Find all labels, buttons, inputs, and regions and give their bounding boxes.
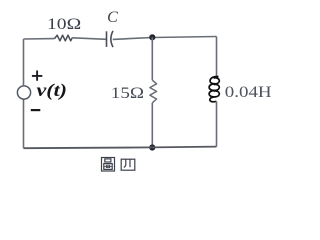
node B junction dot bottom (149, 144, 155, 150)
wire top-left horizontal (24, 38, 55, 40)
capacitor C left plate (106, 31, 108, 47)
node A junction dot top (149, 34, 155, 40)
svg-text:0.04H: 0.04H (225, 82, 272, 101)
plus sign (32, 71, 42, 81)
resistor 15ohm vertical zigzag (150, 80, 157, 103)
minus sign (31, 109, 41, 111)
wire right branch upper (216, 37, 218, 78)
wire resistor to capacitor (72, 38, 106, 40)
capacitor C right curved plate (111, 31, 113, 47)
wire left lower (23, 99, 25, 148)
wire right branch lower (216, 102, 218, 147)
caption char TU (figure) (102, 158, 115, 172)
svg-text:15Ω: 15Ω (111, 85, 144, 102)
caption char four (121, 159, 135, 170)
source v(t) circle (17, 86, 30, 99)
svg-text:v(t): v(t) (37, 80, 68, 100)
wire middle branch upper (151, 37, 153, 80)
resistor R 10ohm zigzag (55, 35, 73, 41)
svg-text:10Ω: 10Ω (47, 16, 81, 33)
wire left upper (23, 39, 25, 86)
wire bottom (24, 147, 217, 149)
wire middle branch lower (151, 103, 153, 148)
svg-text:C: C (107, 9, 118, 26)
wire capacitor to node A (113, 37, 217, 40)
inductor L 0.04H coil (209, 76, 219, 101)
